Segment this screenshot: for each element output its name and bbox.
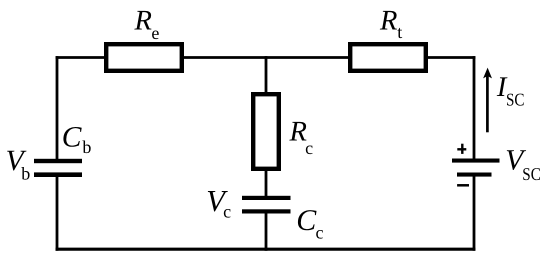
- wire middle lower: [265, 210, 268, 251]
- svg-text:SC: SC: [522, 164, 541, 184]
- svg-text:b: b: [21, 163, 30, 183]
- wire top: [56, 56, 476, 59]
- minus sign: [457, 184, 469, 187]
- wire left upper: [56, 56, 59, 162]
- svg-text:c: c: [316, 222, 324, 242]
- svg-text:c: c: [305, 138, 313, 158]
- resistor Rc: [253, 94, 279, 169]
- resistor Rt: [350, 44, 426, 71]
- svg-text:b: b: [82, 137, 91, 157]
- svg-text:SC: SC: [506, 89, 525, 109]
- wire middle upper: [265, 56, 268, 96]
- capacitor Cb: [34, 159, 82, 163]
- svg-text:R: R: [379, 5, 397, 36]
- svg-text:c: c: [223, 202, 231, 222]
- arrow ISC: [486, 76, 489, 132]
- wire middle between Rc and Cc: [265, 167, 268, 199]
- svg-text:t: t: [397, 22, 402, 42]
- wire right lower: [473, 174, 476, 251]
- wire right upper: [473, 56, 476, 161]
- svg-text:e: e: [151, 23, 159, 43]
- resistor Re: [106, 44, 182, 71]
- source VSC plates: [452, 159, 500, 163]
- capacitor Cc: [242, 196, 291, 200]
- plus sign: [457, 144, 466, 154]
- svg-text:C: C: [62, 121, 82, 153]
- wire left lower: [56, 173, 59, 251]
- wire bottom: [56, 248, 476, 251]
- svg-text:C: C: [296, 204, 317, 237]
- svg-text:R: R: [134, 5, 152, 36]
